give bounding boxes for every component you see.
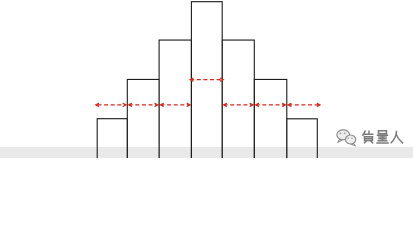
arrow segment bin3 (161, 104, 191, 106)
red dashed width arrows, y=104.9 row (96, 78, 320, 107)
char 人 (391, 131, 403, 143)
char 量 (376, 131, 388, 143)
arrow segment bin5 (224, 104, 253, 106)
watermark text 质量人 (simplified glyph strokes) (363, 131, 404, 144)
histogram bar 3 (159, 40, 191, 159)
histogram bar 5 (222, 40, 254, 159)
arrow segment bin2 (129, 104, 158, 106)
wechat logo icon (337, 130, 356, 146)
histogram bar 7 (287, 119, 318, 159)
arrow segment center bin, y=79.6 (190, 79, 223, 81)
arrow segment bin6 (256, 104, 286, 106)
watermark strip (0, 147, 413, 158)
arrow segment bin7 (288, 104, 320, 106)
histogram bar 4 (center tallest) (191, 2, 222, 159)
histogram bar 6 (254, 79, 286, 159)
histogram bar 2 (127, 79, 159, 159)
arrow segment bin1 (98, 104, 126, 106)
histogram bar 1 (97, 119, 127, 159)
char 质 (363, 131, 374, 144)
